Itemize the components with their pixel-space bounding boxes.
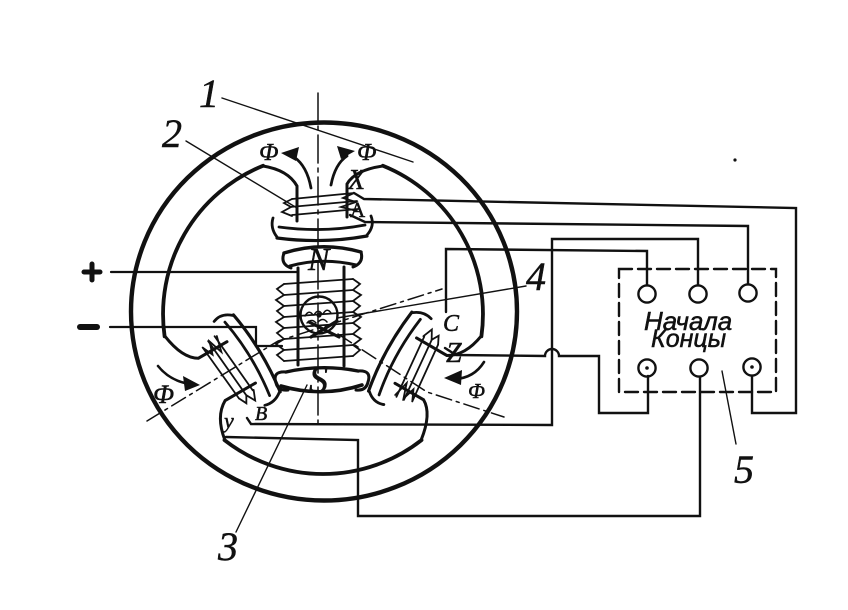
pole shoe right tip [367,216,372,235]
rotor N pole shoe inner edge [290,261,356,266]
svg-text:4: 4 [526,254,546,299]
stator coil right zigzag [341,193,357,211]
wire Z to box (phase C end), hop over B wire [445,348,648,413]
stator tooth top (phase A slot) [263,166,383,241]
svg-text:2: 2 [162,111,182,156]
stator coil turn 2 [290,201,357,207]
svg-text:N: N [307,241,331,277]
tooth neck left side with yoke fillet [263,166,297,221]
svg-text:Концы: Концы [651,325,726,353]
field coil turns [284,279,353,284]
vertical axis line (dash) [317,93,319,425]
stator coil left zigzag [282,199,292,216]
rotor pole body left side [297,268,300,365]
flux arrow top-right [331,146,355,185]
pole shoe inner edge [279,225,365,230]
field coil left zigzag [276,284,284,361]
rotor S pole shoe inner edge [286,368,358,372]
rotor S pole shoe right hook [356,371,369,390]
stator coil turn 1 [292,193,354,199]
terminal top-right [739,284,756,301]
flux arrow lower-left [158,366,200,391]
leader 5 [722,371,736,444]
pole shoe left tip [272,218,277,237]
wire X to box (phase A end) [354,193,796,413]
terminal box dashed rect [619,269,776,392]
svg-text:Ф: Ф [259,140,278,166]
rotor N pole shoe left hook [283,253,291,268]
rotor field winding coil [276,279,361,361]
stator coil turn 3 [292,209,358,215]
terminal bottom-right [743,358,760,375]
svg-text:C: C [443,311,460,337]
wire B to box (phase B begin) [247,239,698,425]
terminal bottom-left [638,359,655,376]
leader 4 [337,286,526,318]
svg-text:Ф: Ф [468,379,485,403]
svg-text:3: 3 [217,524,238,569]
rotor shaft hatching [305,310,331,323]
leader 3 [236,385,307,532]
flux arrow lower-right [444,362,484,385]
crossing axis marks (X) under shaft [309,321,339,337]
terminal top-middle [689,285,706,302]
wire Y to box (phase B end) [226,377,700,516]
stator tooth lower-left (phase B slot) [165,299,290,440]
minus wire [110,327,282,346]
terminal bottom-middle [690,359,707,376]
svg-text:X: X [347,165,366,196]
plus terminal [84,264,100,280]
rotor pole body right side [343,267,346,366]
rotor N pole shoe right hook [353,252,362,267]
rotor shaft center dot [316,312,321,317]
field coil right zigzag [353,279,361,356]
svg-text:Ф: Ф [153,380,174,409]
wire C to box (phase C begin) [446,249,647,312]
tooth neck right side with yoke fillet [347,166,383,217]
stator outer circle [131,123,517,501]
svg-text:1: 1 [199,71,219,116]
stator tooth lower-right (phase C slot) [357,299,482,440]
stator inner bore arc left [163,166,263,337]
svg-text:S: S [309,359,328,401]
svg-text:В: В [255,403,267,425]
minus terminal [80,324,97,330]
svg-text:5: 5 [734,447,754,492]
stator inner bore arc right [383,166,483,337]
stray dot [733,158,736,161]
leader 2 [186,141,297,208]
plus wire [111,271,298,273]
leader 1 [222,98,413,162]
flux arrow top-left [281,147,311,188]
stator inner bore arc bottom [225,440,422,474]
diagonal axis line B (dash-dot) [147,289,442,421]
rotor shaft circle [301,297,338,334]
rotor S pole shoe left hook [275,372,288,390]
diagonal axis line C (dash-dot) [338,334,504,417]
rotor N pole shoe outer edge [284,247,361,253]
wire A to box (phase A begin) [350,215,748,284]
terminal top-left [638,285,655,302]
pole shoe outer edge [277,236,367,241]
svg-text:у: у [222,408,234,433]
rotor S pole shoe outer edge [281,385,362,392]
